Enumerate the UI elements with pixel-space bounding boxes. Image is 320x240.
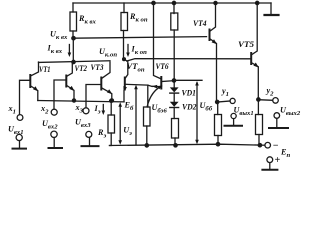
wire junction down [72, 38, 74, 62]
svg-text:Uк.оп: Uк.оп [99, 47, 117, 59]
arrow Uбэ6 arc [147, 86, 161, 106]
svg-text:Iк оп: Iк оп [131, 45, 148, 57]
node divider/VT6 base [172, 79, 175, 82]
resistor Rквх [70, 12, 77, 31]
svg-text:VT6: VT6 [156, 62, 170, 71]
wire Uбб tick [174, 79, 202, 81]
arrow Uбб double [196, 83, 198, 142]
diode VD2 [170, 102, 179, 107]
wire ref resistor drop [147, 85, 149, 107]
wire VT4 base line [74, 37, 207, 39]
svg-text:Uбб: Uбб [200, 101, 213, 113]
terminal + [267, 157, 273, 163]
svg-text:VT4: VT4 [193, 19, 207, 28]
svg-text:Uбэ6: Uбэ6 [152, 103, 168, 115]
svg-text:Uвх3: Uвх3 [75, 118, 91, 130]
transistor VT2 [67, 62, 73, 76]
wire to y2 terminal [258, 99, 272, 102]
arrow Eб up [135, 88, 137, 145]
svg-text:Uк вх: Uк вх [50, 30, 68, 42]
resistor R3 divider [172, 1, 175, 4]
svg-text:Eб: Eб [124, 101, 134, 113]
svg-text:Iк вх: Iк вх [47, 44, 63, 56]
svg-text:Uвх1: Uвх1 [8, 125, 24, 137]
diode VD1 [170, 87, 179, 92]
wire emitter bus [38, 101, 124, 102]
svg-text:Iэ: Iэ [94, 104, 101, 116]
svg-text:Rк вх: Rк вх [78, 14, 97, 26]
arrow Uэ down [119, 105, 121, 142]
resistor VT5 load [256, 115, 263, 135]
ground Uвх2 [51, 131, 57, 137]
transistor VT4 [209, 30, 211, 41]
svg-text:VT3: VT3 [91, 63, 104, 72]
input x2 terminal [51, 109, 57, 115]
svg-text:−: − [273, 141, 279, 152]
svg-text:y1: y1 [221, 87, 229, 99]
svg-text:Eп: Eп [280, 148, 290, 160]
svg-text:+: + [275, 155, 281, 166]
transistor VT3 [102, 62, 110, 78]
transistor VTоп [123, 58, 126, 61]
svg-text:x2: x2 [40, 104, 49, 116]
arrow Iкоп [127, 45, 129, 55]
resistor Rэ [108, 115, 115, 133]
svg-text:x3: x3 [75, 103, 84, 115]
svg-text:Uвых2: Uвых2 [280, 106, 301, 118]
svg-text:Uэ: Uэ [123, 126, 132, 138]
node y1 junction [216, 100, 219, 103]
ground Uвых1 [231, 113, 236, 118]
ground Uвх3 [86, 131, 92, 137]
svg-text:VT1: VT1 [39, 65, 51, 74]
arrow Iэ [102, 105, 104, 113]
input x3 terminal [83, 108, 89, 114]
wire collector bus VT1-VT3 [39, 61, 111, 63]
svg-text:y2: y2 [266, 86, 275, 98]
resistor VT4 load [215, 115, 222, 136]
wire VT6 collector from bus [152, 1, 155, 4]
node y2 junction [257, 98, 260, 101]
wire top bus [73, 2, 271, 4]
transistor VT1 [31, 62, 39, 76]
arrow Iквх [68, 45, 70, 55]
wire VT5 base line [127, 59, 251, 61]
terminal -Eп [265, 142, 271, 148]
ground Uвых2 [274, 113, 280, 119]
svg-text:x1: x1 [8, 104, 16, 116]
svg-text:Rк оп: Rк оп [129, 12, 148, 24]
resistor R4 divider [172, 119, 179, 139]
resistor Rкоп [121, 13, 128, 31]
svg-text:VT5: VT5 [238, 40, 254, 49]
wire to y1 terminal [217, 101, 230, 102]
resistor ref [144, 107, 151, 126]
svg-text:VTоп: VTоп [127, 62, 145, 74]
transistor VT5 [250, 53, 252, 64]
svg-text:Rэ: Rэ [97, 128, 106, 140]
svg-text:Uвх2: Uвх2 [42, 119, 58, 131]
svg-text:VT2: VT2 [75, 64, 88, 73]
svg-text:VD1: VD1 [182, 89, 197, 98]
input x1 terminal [17, 115, 23, 121]
node collector input / Rквх junction [72, 37, 75, 40]
wire bottom bus [110, 144, 265, 145]
ground Uвх1 [16, 134, 22, 140]
ground top right [270, 3, 272, 14]
svg-text:VD2: VD2 [182, 103, 197, 112]
transistor VT6 [160, 77, 162, 89]
